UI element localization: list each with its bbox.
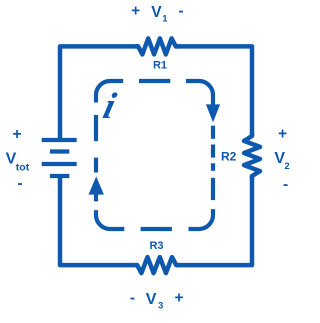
svg-text:R3: R3: [149, 240, 163, 252]
svg-text:-: -: [17, 175, 22, 192]
wire dashed current loop: right dash 1: [211, 126, 215, 139]
svg-text:-: -: [178, 2, 183, 19]
wire right-bottom segment: [176, 176, 252, 265]
svg-text:+: +: [12, 126, 21, 143]
resistor R1: [135, 38, 179, 54]
svg-text:+: +: [278, 126, 287, 143]
svg-text:-: -: [283, 176, 288, 193]
svg-text:+: +: [131, 3, 140, 20]
svg-text:R1: R1: [153, 60, 167, 72]
svg-text:+: +: [174, 289, 183, 306]
arrow up (current direction, left side): [89, 176, 104, 194]
svg-text:-: -: [130, 289, 135, 306]
svg-text:2: 2: [284, 161, 289, 172]
wire bottom-left segment: [60, 176, 138, 265]
resistor R2: [244, 133, 260, 179]
svg-text:i: i: [99, 86, 120, 126]
battery Vtot: [42, 140, 77, 176]
resistor R3: [134, 257, 179, 273]
wire dashed current loop: bottom-right corner dash: [189, 209, 214, 229]
svg-text:R2: R2: [221, 150, 237, 164]
arrow down (current direction, right side): [206, 104, 220, 122]
wire dashed current loop: right dash 2: [211, 145, 215, 158]
wire left-and-top segment: [60, 46, 139, 138]
wire dashed current loop: top-right corner dash with arrow stem: [186, 81, 213, 105]
wire dashed current loop: left arrow tail dash: [94, 194, 98, 201]
wire dashed current loop: left dash long: [94, 115, 98, 141]
wire dashed current loop: right dash 3: [211, 163, 215, 171]
wire dashed current loop: top dash: [139, 79, 170, 83]
wire top-right segment: [175, 46, 252, 136]
svg-text:3: 3: [158, 301, 163, 312]
wire dashed current loop: left dash above arrow: [94, 158, 98, 173]
wire dashed current loop: right dash 4: [211, 178, 215, 200]
svg-text:V: V: [146, 291, 157, 308]
svg-text:tot: tot: [16, 162, 30, 174]
svg-text:V: V: [151, 4, 162, 21]
wire dashed current loop: bottom dash: [141, 227, 172, 231]
wire dashed current loop: bottom-left corner dash: [96, 210, 124, 229]
wire dashed current loop: top-left corner dash: [96, 81, 123, 103]
svg-text:1: 1: [162, 13, 168, 24]
